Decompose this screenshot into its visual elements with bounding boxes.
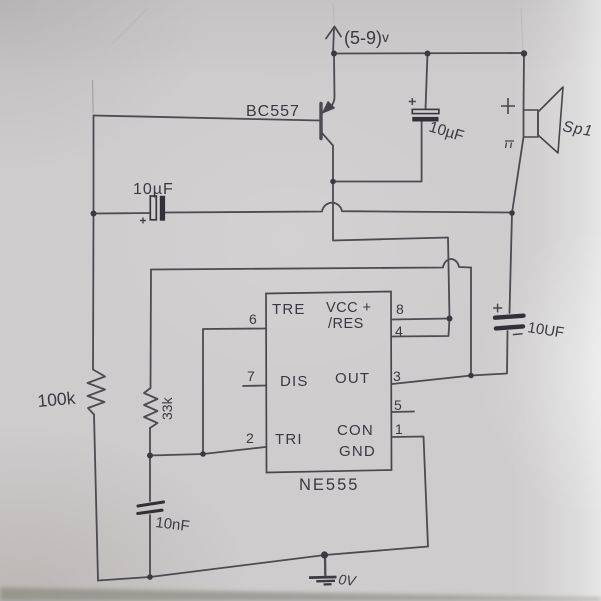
node rail-C2 (425, 51, 431, 57)
svg-text:10µF: 10µF (427, 119, 466, 146)
wire emitter node down and across to pin 8 (333, 182, 450, 319)
transistor Q1 BC557 base bar (319, 104, 322, 139)
node left vertical / C1 wire (91, 211, 97, 217)
svg-text:10nF: 10nF (155, 514, 191, 535)
svg-text:10UF: 10UF (526, 319, 565, 342)
svg-text:(5-9)v: (5-9)v (344, 28, 389, 48)
transistor Q1 emitter lead with arrow (326, 54, 335, 112)
speaker plus terminal (501, 98, 515, 114)
wire feedback line with hop (151, 259, 471, 269)
svg-text:GND: GND (339, 443, 376, 460)
svg-text:OUT: OUT (335, 370, 370, 387)
speaker minus terminal (505, 141, 514, 148)
wire C4 bottom to OUT node (471, 331, 508, 376)
resistor R1 100k zigzag (88, 370, 106, 415)
wire down to resistor R2 top (150, 270, 153, 389)
svg-text:/RES: /RES (328, 316, 364, 332)
wire long horizontal right segment with hop (164, 203, 512, 213)
wire junction to pin 2 (150, 447, 266, 456)
wire supply rail (334, 52, 524, 55)
svg-text:5: 5 (394, 397, 402, 413)
capacitor C3 10nF plates (138, 502, 164, 514)
svg-text:Sp1: Sp1 (561, 118, 594, 140)
wire emitter node to decoupling cap (333, 122, 422, 182)
svg-text:100k: 100k (37, 388, 77, 411)
node 33k/10nF junction (147, 453, 153, 459)
svg-text:7: 7 (247, 368, 255, 384)
wire pin 5 stub (392, 411, 414, 414)
svg-text:4: 4 (395, 323, 403, 339)
svg-text:DIS: DIS (280, 373, 309, 390)
wire long horizontal left segment (94, 212, 150, 215)
svg-text:0V: 0V (338, 571, 358, 589)
node ground rail (321, 551, 328, 558)
faint paper creases (93, 2, 524, 113)
wire pin 8 (392, 319, 450, 320)
wire pin 7 stub (243, 385, 266, 388)
ground stub (324, 555, 327, 576)
svg-text:TRE: TRE (272, 301, 306, 318)
resistor R2 33k zigzag (144, 388, 158, 428)
svg-text:6: 6 (249, 311, 257, 327)
capacitor C4 10uF plates (right) (494, 304, 524, 334)
wire capacitor C3 bottom feed (149, 515, 151, 577)
svg-text:33k: 33k (159, 396, 175, 420)
wire capacitor C3 top feed (149, 456, 151, 502)
node rail-arrow (331, 51, 337, 57)
svg-text:2: 2 (246, 430, 254, 446)
svg-text:BC557: BC557 (246, 103, 300, 120)
wire pin 4 (392, 319, 450, 337)
capacitor C1 10uF plates (left, series) (140, 196, 165, 224)
power arrow (5-9)V (326, 27, 341, 55)
wire R2 bottom to junction (149, 428, 151, 456)
wire pin 1 down to bottom rail (392, 437, 428, 547)
wire pin 3 OUT (392, 376, 471, 385)
wire base lead (94, 116, 320, 121)
svg-text:NE555: NE555 (299, 476, 359, 494)
svg-text:8: 8 (396, 301, 404, 317)
paper edge shadow band at bottom (0, 588, 601, 601)
node rail-speaker (521, 50, 527, 56)
node emitter junction (330, 179, 336, 185)
svg-text:TRI: TRI (275, 431, 303, 448)
svg-text:VCC +: VCC + (326, 300, 372, 316)
wire right cap C4 feed (510, 213, 513, 313)
node pin8/pin4 (447, 316, 453, 322)
wire rail to capacitor C2 top (426, 54, 428, 110)
svg-text:1: 1 (395, 421, 403, 437)
node TRI wire (200, 451, 206, 457)
wire junction up to pin 6 (203, 329, 266, 455)
node OUT junction (468, 373, 474, 379)
svg-text:3: 3 (393, 368, 401, 384)
wire left vertical lower (94, 415, 98, 581)
node dots (91, 50, 528, 580)
wire OUT node up (470, 268, 472, 376)
wire bottom rail (98, 547, 428, 581)
wire speaker drop (512, 54, 524, 214)
capacitor C2 10uF plates (top decoupling) (409, 98, 439, 122)
node 10nF bottom rail (147, 574, 153, 580)
speaker SP1 body (501, 87, 563, 153)
node speaker bottom / horizontal wire (509, 210, 515, 216)
svg-text:CON: CON (337, 422, 374, 439)
transistor Q1 collector lead (322, 133, 333, 181)
svg-text:10µF: 10µF (133, 181, 174, 198)
op-amp/timer U1 NE555 box (266, 292, 392, 473)
ground symbol 0V (309, 577, 337, 585)
wire left vertical upper (92, 116, 95, 370)
